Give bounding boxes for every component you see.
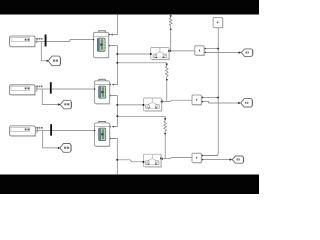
port SW3 left [143, 161, 145, 163]
canvas background [0, 0, 259, 194]
wire mux M2 to U2 m port [52, 88, 95, 90]
wire mux M3 to U3 m port [52, 130, 95, 132]
wire B2 to mux M2 [35, 88, 50, 90]
block shadows [11, 19, 223, 168]
port G1 out2 [204, 52, 206, 54]
port G3 out2 [201, 159, 203, 161]
wire bypass1 [117, 63, 166, 64]
Goto tag SoC2 [60, 100, 71, 109]
arrowhead into Goto SoC2 [58, 103, 61, 105]
arrowhead R2 top [166, 64, 168, 67]
junction node seg2 a [116, 104, 118, 106]
wire U1 - to series node [110, 46, 117, 85]
wire G2 to bus [203, 97, 218, 99]
port m U2 [94, 88, 95, 89]
wire SW3 to G3 [162, 158, 192, 159]
junction node seg1 a [116, 53, 118, 55]
signal label B3 out [37, 127, 43, 129]
wire U2 - to series node [111, 96, 117, 127]
gate driver G3 [192, 153, 201, 162]
node SW2 output [161, 100, 163, 102]
mux M2 [50, 82, 52, 93]
wire G1 to bus [206, 48, 219, 50]
port - U1 [109, 45, 110, 46]
tag shadows [61, 50, 253, 162]
top letterbox bar [0, 0, 259, 15]
arrowhead into From b3 [230, 158, 233, 160]
From tag b2 [241, 99, 252, 107]
Goto tag SoC1 [48, 56, 60, 66]
gate driver G2 [192, 95, 201, 105]
bottom letterbox bar [0, 175, 259, 195]
port SW3 right [160, 158, 162, 160]
switch SW3 [144, 154, 162, 167]
port + U1 [109, 34, 110, 35]
From tag b3 [232, 156, 243, 163]
wire R3 to SW3 output node [164, 134, 166, 159]
wire to SW3 input [117, 160, 142, 162]
junction node seg3 [116, 159, 118, 161]
arrowhead into From b2 [238, 102, 241, 104]
wire G2 to From b2 [203, 102, 239, 103]
junction bus row1 [217, 48, 219, 50]
wire B1 to mux M1 [35, 40, 44, 42]
junction bus row2 [217, 97, 219, 99]
port G1 out1 [204, 48, 206, 50]
node R3 bottom [164, 133, 166, 135]
port SW2 right [161, 101, 163, 103]
battery B3 [10, 126, 38, 136]
mux M1 [45, 35, 47, 47]
port G2 out1 [201, 97, 203, 99]
wire tap to Goto SoC2 [42, 89, 58, 105]
switch SW1 [151, 48, 169, 60]
wire G3 to bus elbow [203, 154, 218, 156]
wire tap to Goto SoC1 [41, 41, 47, 60]
node R2 bottom [166, 79, 168, 81]
signal label B2 out [36, 86, 42, 88]
node SW1 output [169, 50, 171, 52]
port - U2 [110, 95, 111, 96]
arrowhead into Goto SoC1 [47, 60, 50, 62]
mux M3 [50, 124, 52, 135]
wire B3 to mux M3 [36, 130, 51, 132]
signal label B1 out [36, 38, 42, 40]
battery module U2 [95, 79, 110, 103]
arrowhead R3 top [164, 118, 166, 121]
port SW2 left [143, 104, 145, 106]
port G3 out1 [201, 155, 203, 157]
wire tap to Goto SoC3 [43, 131, 58, 148]
wire SW1 to G1 [170, 50, 195, 52]
resistor R3 [164, 121, 167, 133]
battery B2 [10, 85, 37, 95]
wire bypass2 [117, 116, 165, 118]
wire SW2 to G2 [162, 100, 192, 101]
junction node seg1 b [116, 62, 118, 64]
wire R2 to SW2 output node [166, 80, 168, 101]
wire U3 - to bottom rail [111, 139, 117, 175]
node SW3 output [161, 158, 163, 160]
wire G1 to From b1 [206, 51, 239, 53]
arrowhead into From b1 [239, 51, 242, 53]
control bus wire [203, 28, 218, 156]
wire G3 to From b3 [203, 159, 230, 161]
wire U1 + to top rail [110, 15, 117, 35]
wire to SW1 input [117, 53, 149, 55]
port + U2 [110, 84, 111, 85]
switch SW2 [144, 98, 162, 111]
From tag b1 [241, 49, 252, 57]
terminator T1 [213, 17, 223, 27]
battery B1 [10, 36, 37, 47]
wire to SW2 input [117, 104, 142, 106]
port m U1 [93, 39, 94, 40]
port m U3 [94, 130, 95, 131]
resistor R2 [165, 66, 168, 79]
wire mux M1 to U1 m port [47, 40, 94, 42]
gate driver G1 [195, 46, 204, 55]
Goto tag SoC3 [60, 144, 71, 153]
port SW1 left [150, 53, 152, 55]
resistor R1 [169, 15, 172, 51]
port - U3 [110, 138, 111, 139]
battery module U3 [95, 121, 110, 146]
arrowhead into Goto SoC3 [58, 147, 61, 149]
port SW1 right [168, 50, 170, 52]
port G2 out2 [201, 101, 203, 103]
battery module U1 [94, 31, 109, 58]
port + U3 [110, 126, 111, 127]
junction node seg2 b [116, 115, 118, 117]
